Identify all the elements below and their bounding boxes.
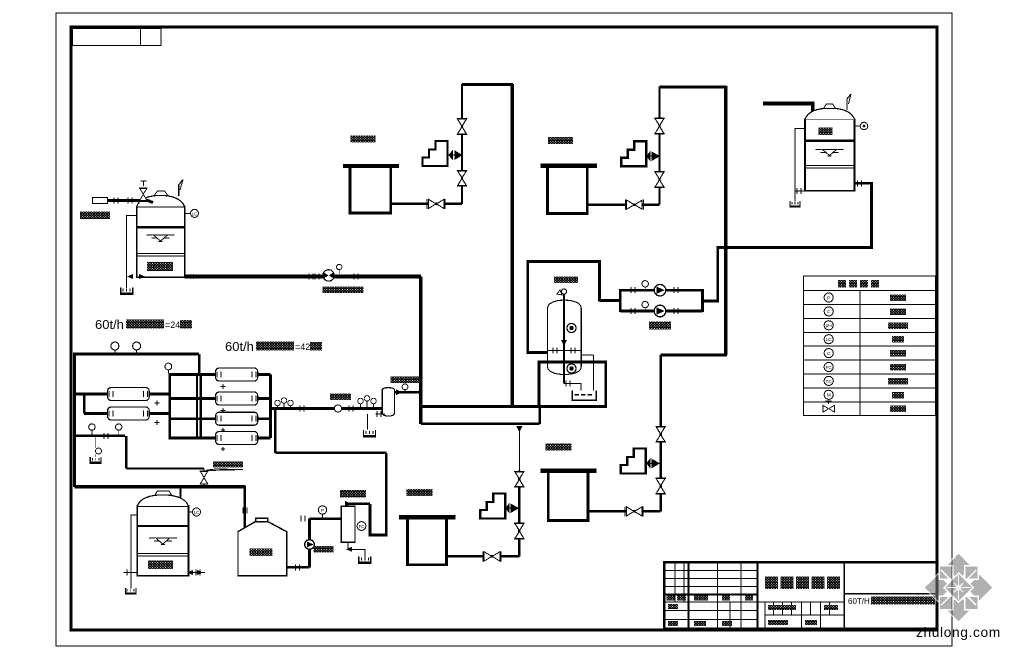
- legend header: [838, 280, 846, 288]
- arrow at UV outlet: [345, 501, 352, 507]
- tank body unit3: [408, 519, 447, 564]
- pipe: concentrate branch: [75, 435, 126, 437]
- pipe: UV feed horizontal run: [275, 452, 386, 455]
- vessel legs drain: [368, 414, 386, 430]
- check valve unit1: [427, 199, 445, 209]
- interstage manifold left: [168, 374, 171, 440]
- pipe: RO loop left vertical: [73, 354, 76, 487]
- tank T2 body: [137, 506, 188, 576]
- flange pure tank outlet: [858, 180, 862, 186]
- watermark diamond south: [945, 594, 973, 622]
- membrane element M2: [108, 407, 150, 420]
- sump tank with water line: [572, 390, 596, 400]
- pump arrow unit1: [449, 151, 462, 159]
- tank T3 lid: [256, 518, 268, 522]
- svg-text:LC: LC: [194, 510, 201, 515]
- tank T1 dome: [137, 195, 185, 206]
- UV vessel: [341, 506, 355, 542]
- metering pump unit3: [480, 494, 505, 519]
- svg-text:P: P: [321, 508, 324, 513]
- pump arrow unit3: [506, 504, 518, 512]
- valve: unit1 upper: [457, 119, 467, 135]
- pipe: main line drop to product header: [419, 277, 423, 424]
- pipe: unit1 outlet: [391, 203, 462, 205]
- legend symbols column: [824, 293, 833, 400]
- valve: unit4 upper: [655, 427, 665, 443]
- pipe from box1 to pump manifold: [599, 299, 620, 302]
- text: 60t/h first stage note: [95, 317, 322, 354]
- pipe: unit4 dosing header: [661, 354, 727, 357]
- stage2 feed stubs: [170, 375, 216, 439]
- pipe: slope tank outlet: [287, 566, 310, 569]
- tank T4 dome peak: [824, 104, 836, 108]
- svg-text:60T/H: 60T/H: [848, 597, 870, 606]
- svg-text:F: F: [827, 309, 830, 315]
- internal pump circle upper: [567, 323, 576, 332]
- pipe: pure tank outlet stub: [855, 182, 873, 185]
- pump P1 top: [654, 284, 666, 296]
- pipe: right tall vertical: [724, 86, 727, 355]
- tank T4 divider thick: [805, 139, 855, 141]
- pipe: drop into slope tank: [244, 485, 247, 529]
- tank T2 dome lid: [155, 491, 172, 495]
- valve: unit4 lower: [655, 478, 665, 494]
- pipe: polish pump riser: [308, 519, 311, 568]
- label: feed pumps: [649, 322, 671, 330]
- membrane element M5: [216, 412, 258, 425]
- pipe: drop to UV feed run: [274, 409, 277, 453]
- right zone divider: [844, 593, 937, 595]
- pipe: drop to pump manifold: [716, 248, 719, 302]
- UV instrument circle: [357, 522, 366, 531]
- pipe: cartridge vessel outlet step: [394, 391, 421, 394]
- tank T4 drain: [795, 129, 805, 202]
- title block main verticals: [756, 562, 758, 628]
- concentrate gauges below stage1: [89, 424, 95, 430]
- tank T1 vent: [179, 180, 183, 197]
- tank T3 outline: [238, 522, 287, 576]
- product manifold right: [269, 375, 272, 439]
- UV drain piping: [348, 542, 365, 557]
- tank rim unit2: [541, 164, 598, 168]
- tank T1 drain line: [127, 215, 137, 288]
- plus marks at element inlets: [221, 384, 226, 451]
- gauge P1: [644, 287, 646, 290]
- HP pump circle on product line: [334, 405, 341, 412]
- pipe: long product header to cleaning box: [421, 405, 540, 408]
- tank T2 drain: [131, 515, 137, 589]
- middle bottom cells: [757, 601, 844, 603]
- watermark squares: [965, 566, 979, 580]
- inner thick border frame: [71, 27, 937, 630]
- box1 pipe loop: [528, 262, 600, 353]
- valve: tank T1 inlet: [139, 188, 147, 200]
- stage1 outlet runs: [149, 394, 170, 414]
- valve: blowdown connector valve: [203, 469, 205, 487]
- pipe: pump manifold discharge stub: [703, 300, 719, 303]
- pipe: UV bottom run: [369, 534, 388, 537]
- svg-text:60t/h: 60t/h: [95, 317, 124, 332]
- manifold bottom branch: [620, 310, 702, 313]
- label: multimedia backwash pump: [323, 287, 364, 294]
- tank T4 vent: [847, 94, 851, 110]
- legend column divider: [859, 291, 861, 416]
- pipe: unit2 riser: [658, 87, 660, 205]
- manifold right bar: [701, 289, 704, 312]
- tank body unit1: [350, 168, 391, 213]
- pipe: raw water tank outlet main line: [185, 275, 421, 279]
- left grid verticals: [675, 562, 684, 602]
- tank T3 label: [250, 549, 273, 557]
- tank body unit4: [548, 473, 588, 521]
- gauge above booster pump: [338, 270, 340, 274]
- cartridge vessel body: [382, 388, 394, 417]
- legend valve symbol row9: [823, 405, 835, 413]
- tank T2 label: [148, 561, 173, 570]
- tank T4 instrument: [855, 125, 861, 127]
- tank body unit2: [548, 168, 588, 214]
- pipe: UV outlet top run: [347, 502, 370, 505]
- check valve unit4: [625, 506, 643, 516]
- label: dosing unit2: [548, 137, 573, 144]
- pipe: unit4 riser: [659, 355, 661, 511]
- gauge on polish discharge: [322, 514, 324, 519]
- tank T1 divider thick: [137, 226, 185, 229]
- svg-text:FC: FC: [825, 365, 832, 371]
- tank T4 body: [805, 119, 855, 190]
- title text: process flow diagram: [765, 577, 778, 590]
- check valve unit2: [625, 200, 643, 210]
- pipe: unit4 outlet: [588, 510, 661, 512]
- metering pump unit2: [621, 141, 646, 166]
- label: blowdown text: [213, 462, 243, 468]
- pipe: lower parallel header: [421, 423, 540, 425]
- gauge on interstage: [165, 363, 172, 370]
- tank rim unit4: [541, 469, 597, 473]
- tank T2 instrument: [189, 511, 193, 513]
- svg-text:zhulong.com: zhulong.com: [916, 625, 1001, 640]
- watermark white spokes: [941, 570, 976, 605]
- watermark center petals: [944, 573, 973, 602]
- metering pump unit1: [423, 141, 448, 166]
- outfall arrow symbol: [206, 469, 243, 470]
- booster pump on main line: [323, 270, 334, 281]
- svg-text:FC: FC: [359, 524, 365, 529]
- pipe: concentrate run to blowdown: [126, 467, 204, 469]
- pipe: polish pump discharge to UV: [310, 517, 342, 520]
- pipe: unit2 outlet: [587, 203, 659, 205]
- tank rim unit1: [343, 164, 399, 168]
- drain symbol UV: [359, 557, 371, 564]
- membrane element M3: [216, 368, 258, 381]
- stage2 outlet stubs: [258, 375, 271, 439]
- tank T2 divider double: [137, 554, 188, 556]
- tank T4 label: [819, 128, 833, 136]
- pipe: UV bracket riser: [369, 504, 372, 537]
- pipe: unit1 riser: [461, 84, 463, 204]
- svg-text:C: C: [827, 351, 831, 357]
- pipe: unit3 outlet: [446, 555, 519, 557]
- pipe: UV column vertical: [385, 453, 388, 535]
- filter vessel body: [548, 300, 582, 374]
- valve: unit3 upper: [514, 471, 524, 487]
- legend descriptions: [890, 295, 906, 302]
- interstage manifold right pair: [197, 374, 201, 440]
- tank T1 label: [147, 262, 173, 271]
- svg-text:LC: LC: [192, 211, 199, 216]
- valve: unit3 lower: [514, 523, 524, 539]
- inlet open-end symbol: [93, 198, 108, 204]
- tank T1 divider double: [137, 254, 185, 256]
- valve: unit1 lower: [457, 170, 467, 186]
- svg-text:=42: =42: [295, 342, 310, 352]
- tank T4 water level symbol: [816, 150, 844, 157]
- pipe: concentrate drop: [125, 436, 127, 469]
- tank T2 dome: [137, 495, 188, 506]
- pipe: lower header rise into cleaning box: [539, 407, 541, 424]
- column to sump: [564, 384, 581, 391]
- small cells text noise: [667, 596, 675, 601]
- valve: unit2 upper: [654, 118, 664, 134]
- legend outer box: [803, 276, 935, 415]
- label: polish pump: [314, 546, 334, 553]
- pipe: pure tank outlet drop: [870, 183, 873, 248]
- tank T1 body: [137, 207, 185, 278]
- tank T2 water level symbol: [149, 538, 177, 545]
- label: HP pump: [330, 394, 351, 401]
- pipe: pure tank suction header: [717, 246, 872, 249]
- pump P2 bottom: [654, 305, 666, 317]
- flow arrows on main line: [127, 274, 145, 279]
- membrane element M1: [108, 388, 150, 401]
- svg-text:LC: LC: [826, 337, 833, 343]
- tank T2 divider thick: [137, 525, 188, 527]
- label: cartridge filter: [391, 377, 420, 384]
- arrow into vessel: [396, 389, 402, 395]
- pipe: bottom transfer run to product tanks: [75, 485, 245, 488]
- feed vertical from top header: [198, 354, 201, 374]
- tank T4 divider double: [805, 166, 855, 169]
- flange on slope tank feed: [243, 508, 247, 514]
- pipe: RO loop top feed run: [73, 352, 199, 355]
- pipe: product tank2 inlet drop: [180, 487, 182, 498]
- tank T4 dome: [805, 108, 855, 119]
- gauge right of vessel: [404, 390, 406, 393]
- internal pump circle lower: [567, 364, 576, 373]
- pipe: RO product line: [269, 407, 382, 410]
- left grid horizontals: [664, 570, 757, 586]
- pipe: pure tank inlet line: [763, 104, 813, 114]
- pump arrow unit4: [647, 459, 659, 467]
- pipe: dosing unit2 riser top run: [660, 86, 727, 89]
- svg-text:=24: =24: [165, 320, 180, 330]
- label: dosing unit4: [546, 444, 572, 451]
- pipe: dosing unit1 riser top run to center column: [462, 83, 513, 86]
- box2 cleaning tank enclosure: [539, 362, 606, 407]
- manifold top branch: [620, 289, 702, 292]
- manifold left bar: [619, 289, 622, 312]
- svg-text:TC: TC: [825, 379, 832, 385]
- sample point below concentrate branch: [95, 436, 97, 448]
- tank T2 bottom stubs: [124, 572, 138, 574]
- polish pump circle: [305, 540, 315, 550]
- valve: unit2 lower: [654, 172, 664, 188]
- check valve unit3: [483, 551, 501, 561]
- label: dosing unit1: [351, 136, 376, 143]
- vessel center column: [563, 294, 565, 384]
- membrane element M6: [216, 432, 258, 445]
- tank T1 dome peak: [154, 191, 168, 196]
- tank rim unit3: [399, 515, 456, 519]
- arrow from header into unit3 riser: [516, 426, 522, 433]
- label: user raw water: [80, 212, 110, 220]
- watermark diamond north: [945, 553, 973, 581]
- flanges around pump: [309, 274, 313, 280]
- pipe: unit3 riser: [518, 429, 520, 471]
- membrane element M4: [216, 392, 258, 405]
- svg-text:60t/h: 60t/h: [225, 339, 254, 354]
- flanges at vessel bottom: [553, 348, 557, 354]
- metering pump unit4: [621, 449, 646, 474]
- pump arrow unit2: [647, 152, 659, 160]
- watermark diamond west: [924, 574, 952, 602]
- legend row lines: [803, 291, 935, 402]
- label: sterilizer: [340, 490, 366, 498]
- tank T1 inlet pipe: [108, 200, 153, 202]
- tank T4 bottom stub tick: [795, 190, 805, 192]
- svg-text:P: P: [827, 295, 830, 301]
- arrow on column: [561, 340, 567, 346]
- gauges on product line: [358, 398, 364, 404]
- watermark diamond east: [965, 574, 993, 602]
- title block outer: [664, 562, 937, 628]
- svg-text:M: M: [827, 393, 831, 399]
- tank T1 water level symbol: [147, 235, 175, 242]
- thin link lines: [581, 354, 593, 391]
- label: dosing unit3: [407, 489, 433, 496]
- svg-text:pH: pH: [826, 323, 833, 329]
- tank T1 level instrument LC: [185, 212, 191, 214]
- label: filter vessel: [554, 277, 578, 284]
- drain symbol T1: [121, 288, 133, 295]
- stage1 feed manifold: [83, 394, 86, 414]
- top-left title strip box: [72, 28, 161, 45]
- gauge P2: [644, 308, 646, 311]
- gauges on RO feed header: [111, 342, 119, 350]
- title strip divider: [140, 28, 142, 45]
- pipe: center column vertical: [511, 84, 514, 407]
